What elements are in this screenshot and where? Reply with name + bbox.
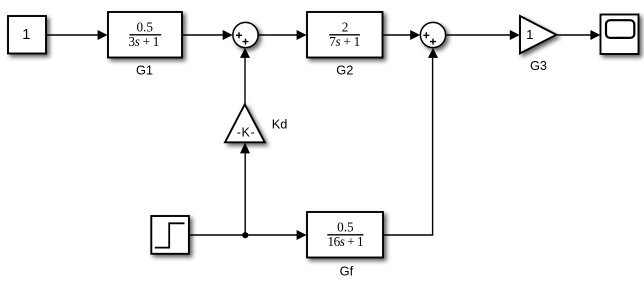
constant block Constant [8,16,46,54]
value label 0.5/(16s+1) [327,219,363,249]
transfer function G1 [108,12,182,58]
wire sum1 to G2 [258,34,298,36]
wire sum2 to G3 [446,34,512,36]
value label 2/(7s+1) [329,19,360,49]
svg-text:3s + 1: 3s + 1 [128,34,159,49]
sum junction sum2 [420,22,445,47]
sum junction sum1 [233,22,258,47]
plus sign (sum1 bottom input) [243,39,249,45]
svg-text:G1: G1 [136,62,153,77]
svg-text:16s + 1: 16s + 1 [328,234,364,249]
svg-text:1: 1 [526,27,533,42]
svg-text:G3: G3 [530,58,547,73]
plus sign (sum1 left input) [236,32,242,38]
wire G2 to sum2 [383,34,412,36]
wire G1 to sum1 [182,34,224,36]
scope screen icon [606,20,634,38]
wire Step to Gf [189,234,298,236]
svg-text:0.5: 0.5 [337,219,354,234]
transfer function Gf [307,212,383,258]
wire G3 to Scope [556,34,592,36]
wire Kd to sum1 (up) [244,57,246,105]
wire Gf to sum2 (right then up) [383,57,433,236]
plus sign (sum2 left input) [423,32,429,38]
svg-text:0.5: 0.5 [136,19,153,34]
svg-text:2: 2 [342,19,349,34]
wire junction to Kd (up) [244,151,246,236]
value label 0.5/(3s+1) [128,19,161,49]
svg-text:Gf: Gf [340,263,354,278]
step waveform icon [155,223,185,247]
plus sign (sum2 bottom input) [430,39,436,45]
step block Step [151,216,189,254]
gain Kd (pointing up) [225,104,265,142]
svg-text:7s + 1: 7s + 1 [329,34,360,49]
svg-text:G2: G2 [336,62,353,77]
gain G3 [520,16,556,53]
scope block Scope [601,15,639,55]
junction dot [242,232,248,238]
svg-text:1: 1 [22,27,30,43]
svg-text:-K-: -K- [237,126,255,140]
wire Constant to G1 [46,34,99,36]
svg-text:Kd: Kd [272,116,288,131]
transfer function G2 [307,12,383,58]
